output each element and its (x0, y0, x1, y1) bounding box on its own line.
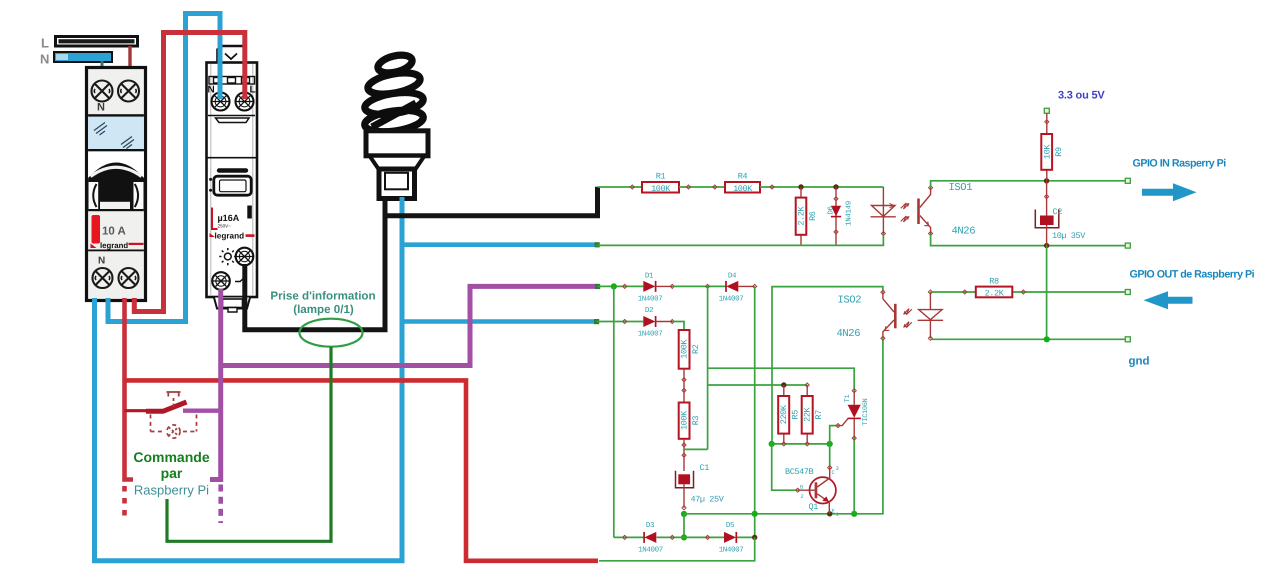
wire red loop relay L to breaker bottom (134, 33, 245, 312)
svg-text:D5: D5 (726, 522, 735, 530)
svg-text:BC547B: BC547B (785, 467, 814, 477)
relay red bracket (212, 208, 218, 230)
wire vertical D4 anode rail (754, 286, 756, 537)
svg-text:Commande: Commande (133, 449, 209, 465)
svg-text:100K: 100K (680, 339, 690, 359)
breaker red flag (92, 215, 101, 244)
breaker hatched band (88, 116, 144, 149)
svg-text:R1: R1 (656, 172, 666, 182)
svg-text:ISO2: ISO2 (838, 294, 862, 306)
svg-text:10K: 10K (1042, 144, 1052, 159)
svg-text:250V~: 250V~ (218, 223, 232, 228)
resistor R9 (1041, 108, 1064, 181)
capacitor C1 (676, 463, 725, 510)
svg-text:N: N (98, 256, 105, 267)
svg-text:par: par (161, 465, 183, 481)
pin marker (630, 185, 634, 189)
svg-text:R7: R7 (814, 410, 824, 420)
junction D6 (833, 184, 838, 189)
ISO1 light arrows (901, 203, 910, 222)
lamp base (379, 169, 415, 199)
wire R2 to R3 (682, 369, 686, 403)
junction rail left (769, 441, 775, 447)
svg-text:3: 3 (836, 465, 839, 472)
relay top clip (218, 46, 246, 63)
pin marker (706, 284, 710, 288)
relay module u16A (module 2) (207, 46, 258, 312)
diode D2 1N4007 (638, 306, 675, 339)
breaker section divider (88, 114, 144, 116)
CFL lamp (363, 52, 428, 198)
svg-text:2: 2 (801, 493, 804, 500)
svg-text:4N26: 4N26 (837, 328, 861, 340)
svg-text:R3: R3 (691, 416, 701, 426)
lamp neck (370, 156, 425, 169)
relay lamp icon (219, 248, 236, 265)
wire ISO2 collector to rail (772, 287, 883, 444)
junction R9 bottom (1044, 178, 1049, 183)
svg-text:100K: 100K (733, 184, 753, 194)
terminal emitter rail (1125, 243, 1130, 248)
svg-text:100K: 100K (680, 410, 690, 430)
wire green prise d'information (167, 347, 331, 542)
relay legrand logo (210, 232, 255, 241)
svg-text:N: N (40, 52, 49, 67)
svg-text:2.2K: 2.2K (797, 206, 807, 226)
svg-text:C2: C2 (1053, 207, 1063, 217)
pin marker Q1 base (796, 488, 800, 492)
relay actuator dashed (167, 392, 181, 407)
ISO1 phototransistor (917, 186, 933, 236)
resistor R8 (976, 277, 1013, 299)
lamp spiral tube (363, 52, 424, 135)
relay switch icon (235, 278, 247, 282)
junction C2 bottom (1044, 243, 1049, 248)
wire purple relay coil down (210, 289, 221, 480)
svg-text:R4: R4 (738, 172, 748, 182)
node D1 input (from purple) (598, 285, 644, 287)
relay lip (208, 116, 255, 123)
breaker bottom screw right (119, 268, 139, 288)
junction rail right (827, 441, 833, 447)
svg-text:R8: R8 (989, 277, 999, 287)
ISO2 light arrows (903, 309, 912, 328)
junction gnd (1044, 336, 1050, 342)
svg-text:µ16A: µ16A (218, 213, 240, 223)
wire R3 to C1 (682, 439, 686, 471)
terminal GPIO IN (1125, 178, 1130, 183)
svg-text:R2: R2 (691, 344, 701, 354)
wire rail to Q1 base (772, 444, 798, 490)
relay top screw N (212, 93, 230, 111)
net gnd line (930, 338, 1127, 340)
svg-text:D2: D2 (645, 306, 653, 315)
wire red branch to rectifier (125, 380, 599, 560)
resistor R6 (796, 187, 818, 245)
relay slot (217, 168, 248, 172)
relay bottom screw upper-right (236, 248, 254, 266)
wire bridge bottom row (614, 536, 755, 538)
svg-text:D3: D3 (646, 521, 655, 530)
wire from L bar to breaker (128, 46, 131, 68)
terminal blue wire ISO1 rail (595, 242, 600, 247)
terminal purple wire D1 (595, 284, 600, 289)
svg-text:L: L (41, 36, 49, 51)
svg-text:1N4007: 1N4007 (638, 295, 663, 304)
diode D6 1N4149 (827, 187, 854, 245)
wire bridge to red feed (599, 537, 755, 560)
svg-text:10µ 35V: 10µ 35V (1052, 231, 1086, 241)
svg-text:10 A: 10 A (102, 226, 126, 238)
svg-text:1N4007: 1N4007 (719, 295, 744, 304)
svg-text:D1: D1 (645, 273, 654, 281)
svg-text:D6: D6 (827, 206, 836, 215)
net GPIO IN line (931, 181, 1128, 188)
pin marker (770, 185, 774, 189)
junction bridge center (681, 534, 687, 540)
wire blue branch to ISO1 rail (402, 242, 597, 247)
wire blue neutral breaker to lamp (bottom frame) (95, 197, 403, 561)
svg-text:legrand: legrand (215, 232, 245, 241)
junction R5 top (781, 382, 786, 387)
wire R3 bottom branch right (684, 448, 708, 450)
diode D5 1N4007 (719, 522, 744, 554)
svg-text:Q1: Q1 (809, 502, 819, 512)
svg-text:GPIO IN Rasperry Pi: GPIO IN Rasperry Pi (1133, 158, 1227, 170)
resistor R3 (679, 403, 701, 439)
ISO2 phototransistor (881, 290, 897, 340)
relay DIN clip bottom (214, 298, 250, 313)
relay top screw L (236, 93, 254, 111)
junction left rail (611, 283, 617, 289)
relay coil dashed box (151, 415, 197, 439)
wire rail to T1 gate (830, 426, 839, 444)
svg-text:C1: C1 (700, 463, 710, 473)
L bus bar (55, 36, 139, 48)
ISO2 LED (918, 290, 944, 341)
relay contact switch (125, 402, 187, 411)
pin marker (836, 424, 840, 428)
diode D1 1N4007 (638, 273, 675, 304)
breaker legrand logo (91, 241, 144, 250)
svg-text:Prise d'information: Prise d'information (270, 290, 375, 303)
svg-text:3.3 ou 5V: 3.3 ou 5V (1058, 90, 1105, 102)
svg-text:legrand: legrand (100, 241, 128, 250)
net GPIO OUT line (930, 291, 1127, 293)
wire D1 to D4 (673, 285, 727, 287)
lamp housing (366, 131, 428, 156)
pin markers (686, 185, 717, 189)
relay mid divider (207, 157, 258, 159)
pin marker R7 top (805, 383, 809, 387)
thyristor T1 TIC106N (839, 389, 871, 514)
wire blue loop relay N to breaker bottom (108, 14, 220, 322)
terminal GPIO OUT (1125, 290, 1130, 295)
wire D2 to R2 (673, 322, 685, 331)
N bus bar (54, 52, 112, 62)
svg-text:N: N (97, 102, 105, 114)
pin markers (782, 442, 810, 446)
wire R5 R7 top feed (708, 384, 808, 386)
ISO1 input bottom rail (597, 234, 884, 246)
relay bottom screw lower-left (212, 272, 230, 290)
svg-text:N: N (208, 85, 215, 96)
wire vertical D1-D4 node down (707, 286, 709, 449)
svg-text:22K: 22K (803, 406, 813, 421)
breaker bottom screw left (93, 268, 113, 288)
svg-text:gnd: gnd (1129, 356, 1150, 368)
wire rail to Q1 collector (829, 444, 831, 468)
junction D5 output (752, 535, 757, 540)
wire purple dashed stub (218, 485, 223, 524)
wire bottom emitter rail (684, 338, 883, 514)
svg-text:220K: 220K (779, 404, 789, 424)
wire C1 junction down to bridge (683, 514, 685, 537)
pin markers (963, 290, 1026, 294)
junction on emitter rail (752, 511, 758, 517)
node D2 input (from blue) (597, 321, 644, 323)
arrow GPIO IN (1142, 183, 1197, 201)
wire R1 to R4 (679, 186, 725, 188)
node phase input line (598, 186, 644, 188)
relay terminal strip (209, 77, 255, 85)
resistor R4 (725, 172, 760, 194)
svg-text:Raspberry Pi: Raspberry Pi (134, 482, 209, 497)
junction T1 cathode (851, 511, 857, 517)
wire black branch to R1 (385, 187, 598, 216)
svg-text:2.2K: 2.2K (985, 289, 1005, 299)
terminal blue wire D2 (594, 319, 599, 324)
svg-text:R9: R9 (1054, 147, 1064, 157)
resistor R2 (679, 330, 701, 369)
terminal gnd (1125, 337, 1130, 342)
arrow GPIO OUT (1144, 291, 1193, 309)
wire blue branch to D2 (402, 319, 597, 324)
relay window (209, 176, 251, 195)
svg-text:4N26: 4N26 (952, 226, 976, 238)
pin marker (828, 466, 832, 470)
svg-text:47µ 25V: 47µ 25V (691, 494, 725, 504)
resistor R7 (802, 385, 824, 444)
svg-text:R5: R5 (791, 410, 801, 420)
resistor R1 (642, 172, 679, 194)
relay barcode (247, 206, 252, 219)
wire red breaker phase down to switch (125, 298, 134, 480)
wire purple after switch (183, 409, 221, 413)
junction R6 (798, 184, 803, 189)
wire red dashed stub (122, 486, 127, 516)
pin marker (623, 284, 627, 288)
wire R5 R7 bottom rail (772, 443, 830, 445)
svg-text:100K: 100K (651, 184, 671, 194)
svg-text:1N4149: 1N4149 (845, 201, 854, 226)
svg-text:1N4007: 1N4007 (638, 330, 663, 339)
svg-text:(lampe 0/1): (lampe 0/1) (293, 303, 354, 316)
breaker toggle (black) (88, 151, 144, 210)
wire R4 to LED (760, 186, 883, 188)
svg-text:T1: T1 (844, 395, 852, 403)
ISO1 LED (871, 187, 896, 236)
svg-text:ISO1: ISO1 (949, 182, 973, 194)
wire C2 junction down to gnd (1046, 246, 1048, 340)
circuit breaker 10A (module 1) (87, 68, 146, 301)
pin marker (623, 319, 627, 323)
svg-text:1N4007: 1N4007 (719, 545, 744, 554)
svg-text:TIC106N: TIC106N (862, 399, 870, 426)
breaker top screw left (92, 81, 113, 102)
wire purple branch to D1 (221, 286, 598, 365)
junction C1 bottom (681, 511, 687, 517)
wire T1 anode feed (708, 368, 855, 391)
diode D4 1N4007 (719, 273, 757, 304)
pin markers (623, 535, 710, 539)
wire vertical left rail (613, 286, 615, 537)
transistor Q1 BC547B (785, 465, 840, 518)
svg-text:1N4007: 1N4007 (638, 545, 663, 554)
diode D3 1N4007 (638, 521, 663, 554)
svg-text:R6: R6 (808, 211, 818, 221)
net ISO1 emitter line (931, 234, 1128, 246)
prise d'information ellipse (300, 319, 363, 347)
breaker top screw right (118, 81, 139, 102)
wire from N bar to breaker (101, 61, 104, 68)
junction Q1 emitter (827, 511, 832, 516)
capacitor C2 (1035, 181, 1086, 246)
svg-text:GPIO OUT de Raspberry Pi: GPIO OUT de Raspberry Pi (1130, 269, 1255, 281)
svg-text:D4: D4 (728, 273, 737, 281)
resistor R5 (778, 385, 800, 444)
wire black relay output to lamp (245, 196, 385, 330)
